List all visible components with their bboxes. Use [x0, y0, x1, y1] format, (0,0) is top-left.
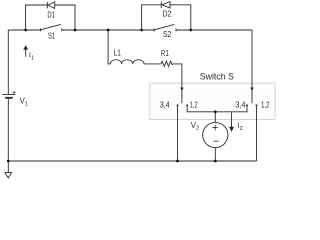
current arrow I1	[23, 45, 28, 57]
wire battery to bottom node	[7, 99, 9, 173]
wire V2 node to right pole pin 3,4	[215, 105, 247, 111]
wire left rail top	[8, 29, 40, 31]
wire right pole pin 1,2 down to bottom corner	[256, 105, 258, 161]
svg-text:1,2: 1,2	[261, 100, 270, 109]
wire D1 loop right	[55, 5, 75, 30]
wire right rail into switch box	[251, 30, 253, 103]
switch S enclosure box	[150, 83, 275, 119]
wire D2 loop left	[142, 5, 162, 30]
bottom return wire	[8, 160, 256, 162]
svg-text:1,2: 1,2	[190, 100, 198, 109]
svg-text:L1: L1	[114, 49, 121, 58]
svg-text:R1: R1	[161, 49, 169, 58]
resistor R1	[161, 61, 173, 66]
svg-text:D1: D1	[47, 11, 55, 20]
diode D1	[47, 2, 54, 8]
wire V2 bottom	[214, 148, 216, 161]
svg-text:S2: S2	[163, 30, 171, 39]
wire L1 to R1	[144, 63, 161, 65]
switch S2	[154, 24, 176, 31]
wire left rail down to battery	[7, 30, 9, 94]
diode D2	[161, 2, 170, 9]
current arrow into right pole	[250, 88, 253, 92]
svg-text:I1: I1	[29, 51, 34, 62]
switch pole terminal dots	[176, 104, 257, 106]
wire left pole pin 1,2 to V2 node	[187, 105, 215, 111]
svg-text:3,4: 3,4	[235, 100, 246, 109]
svg-text:V2: V2	[191, 121, 199, 132]
svg-text:Switch S: Switch S	[200, 72, 234, 82]
svg-text:3,4: 3,4	[160, 100, 170, 109]
battery plus sign	[13, 91, 16, 94]
svg-text:S1: S1	[48, 32, 55, 41]
wire L1 branch down	[108, 30, 110, 64]
wire S2 to top-right corner	[176, 29, 252, 31]
V2 plus sign	[212, 125, 218, 131]
ground	[5, 173, 12, 178]
svg-text:D2: D2	[163, 10, 172, 19]
svg-text:I2: I2	[238, 121, 243, 132]
wire D2 loop right	[170, 5, 191, 30]
wire V2 branch top	[214, 112, 216, 123]
current arrow into left pole	[180, 88, 183, 92]
inductor L1	[110, 60, 144, 64]
battery V1	[2, 94, 15, 97]
wire left pole pin 3,4 down to bottom	[177, 105, 179, 161]
svg-text:V1: V1	[20, 97, 28, 108]
current arrow I2	[229, 112, 234, 131]
wire S1 to S2	[62, 29, 154, 31]
switch S1	[41, 24, 62, 31]
wire D1 loop left	[26, 5, 48, 30]
wire R1 to left pole	[173, 64, 182, 103]
junction node dots	[7, 29, 217, 163]
voltage source V2	[203, 122, 228, 147]
V2 minus sign	[214, 140, 219, 142]
